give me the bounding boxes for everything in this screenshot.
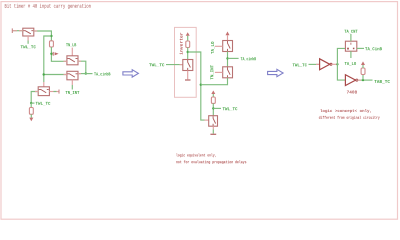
pin Q6 bottom (212, 126, 214, 129)
wire inverter output to Q6 (188, 52, 205, 120)
pin U2 input stub (316, 63, 320, 65)
annotation arrow 2 (268, 69, 284, 76)
wire Q4 input (31, 92, 38, 104)
transistor Q3 (67, 71, 78, 80)
resistor R4 (211, 97, 215, 103)
op-amp U2 (inverting buffer) (320, 59, 332, 70)
transistor Q2 (67, 56, 78, 65)
net label TWL_TC at Q6 (223, 107, 238, 110)
transistor Q7 (223, 41, 233, 52)
net label TA_cinbB (94, 72, 110, 76)
net label TA_CNT (344, 30, 357, 33)
pin Q4 input stub (35, 91, 38, 93)
pin Q1 input with end tick (12, 28, 22, 33)
wire U2 output (332, 63, 337, 65)
resistor R2 (29, 103, 33, 114)
wire inverter input (166, 64, 183, 66)
net label TWL_TC at buffer input (293, 63, 307, 66)
supply arrow up A5 (361, 61, 365, 68)
net label TN_INT (66, 91, 80, 94)
title text (5, 4, 91, 9)
pin Q8 input stub (215, 71, 223, 73)
pin Q4 output with end tick (49, 90, 59, 94)
pin Q6 input stub (205, 119, 209, 121)
wire Q2 output wrap-around (78, 61, 86, 73)
net label TAB_TC (374, 80, 390, 83)
net label TN_LB (66, 43, 76, 46)
wire Q7 bottom to junction (227, 52, 229, 67)
right annotation line 2 (319, 116, 380, 120)
junction J2 (50, 53, 52, 55)
component U1 (345, 41, 356, 51)
junction J3 (85, 72, 87, 74)
wire branch down to Q4 (44, 36, 52, 82)
op-amp U3 (inverting buffer) (345, 75, 357, 86)
pin U1 top with label TA_CNT (350, 34, 352, 41)
pin Q4 top stub (43, 82, 45, 87)
pin Q2 top (71, 48, 73, 56)
net label TWL_TC at inverter input (149, 63, 164, 66)
resistor R1 (50, 41, 54, 47)
pin Q2 output stub (78, 60, 81, 62)
wire U1 output (357, 47, 364, 49)
ground bar G2 (210, 133, 216, 135)
pin U1 bottom with label TA_LO (350, 51, 352, 58)
pin Q5 input stub (180, 64, 183, 66)
junction J5 (30, 102, 32, 104)
transistor Q8 (223, 67, 233, 78)
annotation arrow 1 (123, 70, 139, 77)
supply arrow up A4 (226, 32, 230, 41)
net label TWL_TC near Q4 (36, 102, 51, 105)
wire vertical split (337, 48, 345, 80)
wire R1 to Q2 input (51, 47, 67, 61)
junction J1 (50, 35, 52, 37)
pin Q2 input stub (64, 60, 67, 62)
bottom annotation line 2 (176, 160, 246, 164)
wire Q1 output to pullup (34, 31, 52, 41)
junction J8 (212, 107, 214, 109)
pin Q1 output stub (34, 30, 37, 32)
wire Q3 output (78, 73, 93, 75)
wire stub to label (31, 102, 34, 104)
junction J9 (226, 57, 228, 59)
junction J4 (43, 73, 45, 75)
net label TN_INT (vertical) (210, 65, 213, 79)
supply arrow up A3 (211, 91, 215, 98)
pin Q1 base (bottom) (27, 36, 29, 44)
junction J10 (336, 63, 338, 65)
wire node to Q3 input (44, 74, 67, 76)
resistor R5 (361, 68, 365, 80)
transistor Q4 (38, 87, 49, 96)
wire R4 to Q6 top (212, 103, 214, 115)
wire stub to label (228, 57, 239, 59)
net arrow flag right (53, 52, 58, 56)
junction J6 (187, 51, 189, 53)
net label TA_LO below U1 (345, 62, 356, 65)
pin Q3 bottom (71, 80, 73, 90)
transistor Q6 (209, 116, 218, 127)
transistor Q5 (183, 60, 193, 71)
wire R3 to Q5 (187, 48, 189, 60)
junction J11 (362, 79, 364, 81)
supply arrow up A2 (186, 32, 190, 41)
right annotation line 1 (320, 109, 371, 113)
ground bar G1 (185, 79, 191, 81)
pin Q3 output stub (78, 73, 81, 75)
junction J7 (200, 84, 202, 86)
net label TWL_TC under Q1 (21, 45, 36, 48)
label inverter (vertical) (179, 33, 182, 55)
wire stub to label (213, 107, 221, 109)
net label TA_CinB (365, 47, 382, 51)
transistor Q1 (23, 28, 34, 36)
wire U3 output (358, 79, 373, 81)
inverter block outline (175, 27, 197, 97)
pin U3 output stub (358, 79, 361, 81)
supply arrow down (29, 114, 33, 121)
wire buffer U2 input (309, 63, 320, 65)
pin Q5 bottom (187, 71, 189, 80)
net label TA_LO (vertical) (211, 42, 214, 54)
wire Q8 bottom to J7 (201, 78, 228, 85)
part label 7408 (347, 91, 357, 94)
resistor R3 (186, 41, 190, 48)
bottom annotation line 1 (176, 154, 215, 158)
pin Q3 input stub (64, 74, 67, 76)
pin Q7 input stub (215, 45, 223, 47)
net label TA_cinbB right (241, 57, 256, 61)
